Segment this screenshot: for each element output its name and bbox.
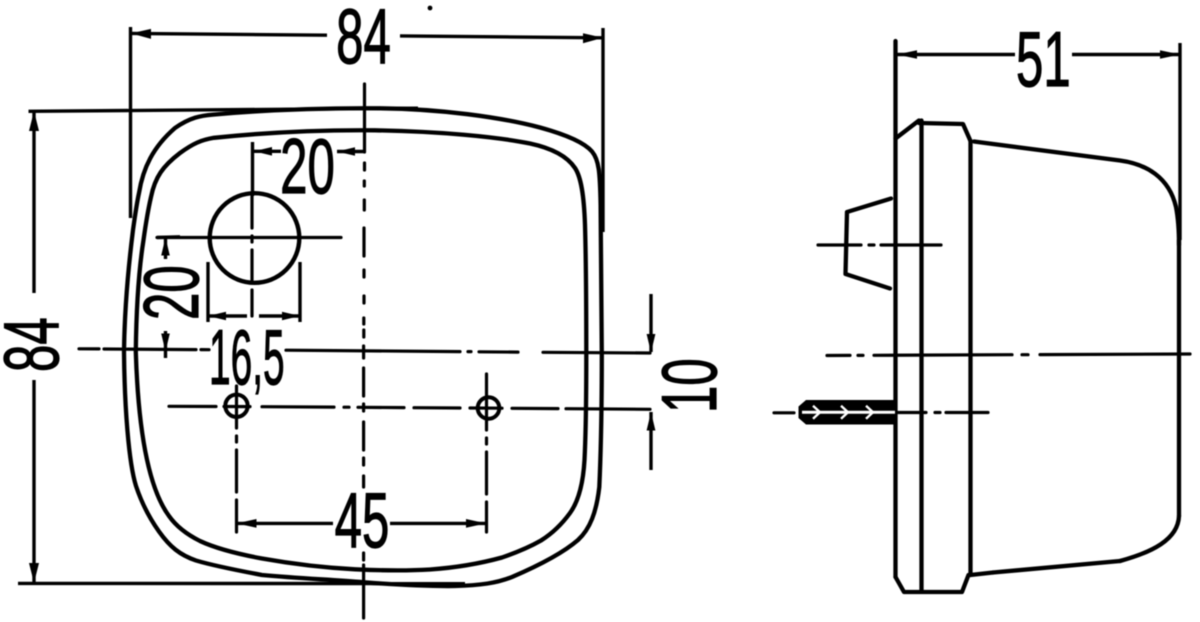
vertical centerline of lamp <box>363 84 366 152</box>
stud thread chevrons (white) <box>813 406 820 419</box>
dim 84 top: right arrowhead <box>583 33 603 43</box>
side view: housing top edge <box>974 142 1179 246</box>
side view: stub centerline <box>818 243 861 246</box>
dim 20 vertical: extension from circle center line <box>157 235 180 239</box>
side view: lens front face <box>919 121 923 592</box>
mounting holes horizontal centerline <box>169 405 216 408</box>
circle horizontal centerline <box>157 236 341 239</box>
dim 45: dimension line right with arrowhead <box>390 522 486 525</box>
side view: top small horizontal and step <box>919 123 971 141</box>
dim 84 left: dimension line <box>32 111 35 293</box>
dim 20 vertical: dimension line bottom with down arrowhead <box>164 331 167 358</box>
dim 51: dimension line <box>897 53 1015 56</box>
front view inner outline <box>136 130 587 570</box>
stray dot artifact <box>428 6 433 11</box>
svg-text:20: 20 <box>280 122 335 209</box>
side view: cable stub outline <box>846 199 892 289</box>
dim 20 vertical: dimension line top with up arrowhead <box>164 238 167 260</box>
svg-text:84: 84 <box>336 0 391 80</box>
dim 16,5: extension line right <box>298 262 301 322</box>
dim 84 top: extension line right vertical <box>601 28 604 232</box>
side view: housing front vertical <box>968 141 972 575</box>
svg-text:84: 84 <box>0 317 75 372</box>
side view: stud centerline <box>774 411 794 414</box>
dim 51: right arrowhead <box>1160 50 1180 59</box>
dim 16,5: dimension line left with arrowhead <box>208 314 247 317</box>
dim 10: upper dimension line with down arrowhead <box>649 294 652 352</box>
side view: bottom step right of flange <box>971 573 994 576</box>
side view: housing right edge <box>1177 240 1181 516</box>
svg-text:51: 51 <box>1016 15 1071 102</box>
dim 84 top: left arrowhead <box>131 29 151 39</box>
right hole vertical centerline <box>485 374 488 430</box>
side view: flange top chamfer <box>896 121 920 139</box>
side view: main horizontal centerline <box>827 354 850 357</box>
dim 84 left: extension line top horizontal <box>29 108 419 111</box>
dim 51: left arrowhead <box>897 50 917 59</box>
circle vertical centerline <box>250 196 253 228</box>
front view outer outline <box>124 108 602 586</box>
svg-text:45: 45 <box>335 476 390 563</box>
svg-text:10: 10 <box>645 358 732 413</box>
side view: back face / 51 extension line left <box>893 41 897 577</box>
dim 20 horizontal: dimension line with left arrowhead <box>254 150 281 153</box>
dim 84 left: bottom arrowhead <box>29 563 39 583</box>
horizontal centerline of lamp <box>79 347 99 350</box>
dim 16,5: dimension line right with arrowhead <box>259 314 300 317</box>
dim 45: dimension line left with arrowhead <box>237 522 334 525</box>
svg-text:20: 20 <box>127 265 214 320</box>
svg-text:16,5: 16,5 <box>209 313 285 400</box>
dim 84 top: extension line left vertical <box>129 27 132 218</box>
dim 20 horizontal: extension line at circle center <box>251 142 254 196</box>
side view: housing bottom right corner <box>1120 516 1179 561</box>
dim 20 horizontal: right arrow pointing left, tail on centerline <box>337 150 364 153</box>
dim 16,5: extension line left <box>206 262 209 322</box>
dim 84 top: dimension line <box>131 33 327 35</box>
side view: housing bottom edge <box>993 561 1120 573</box>
left hole vertical centerline <box>235 386 238 428</box>
lens circle <box>210 193 300 283</box>
mounting hole right <box>478 397 500 419</box>
side view: bottom chamfer left <box>896 575 969 592</box>
side view: threaded stud (filled) <box>799 400 896 425</box>
mounting hole left <box>225 395 247 417</box>
stud white centerline <box>802 411 895 414</box>
dim 84 left: top arrowhead <box>29 111 39 131</box>
side view: 51 extension right upper <box>1178 43 1181 240</box>
dim 10: lower dimension line with up arrowhead <box>649 412 652 470</box>
dim 84 left: extension line bottom horizontal <box>18 582 465 586</box>
